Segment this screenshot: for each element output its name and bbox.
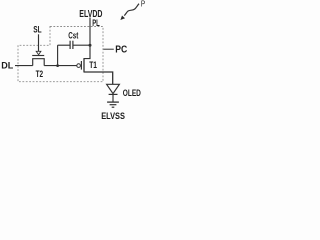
svg-text:DL: DL — [1, 60, 13, 70]
svg-text:PC: PC — [115, 44, 127, 56]
svg-text:SL: SL — [33, 24, 41, 34]
svg-text:OLED: OLED — [123, 88, 141, 98]
svg-text:T2: T2 — [36, 69, 44, 80]
svg-text:P: P — [141, 0, 145, 9]
svg-text:Cst: Cst — [68, 30, 78, 40]
svg-text:T1: T1 — [89, 60, 97, 70]
svg-text:ELVSS: ELVSS — [101, 110, 125, 120]
svg-text:PL: PL — [92, 18, 100, 29]
